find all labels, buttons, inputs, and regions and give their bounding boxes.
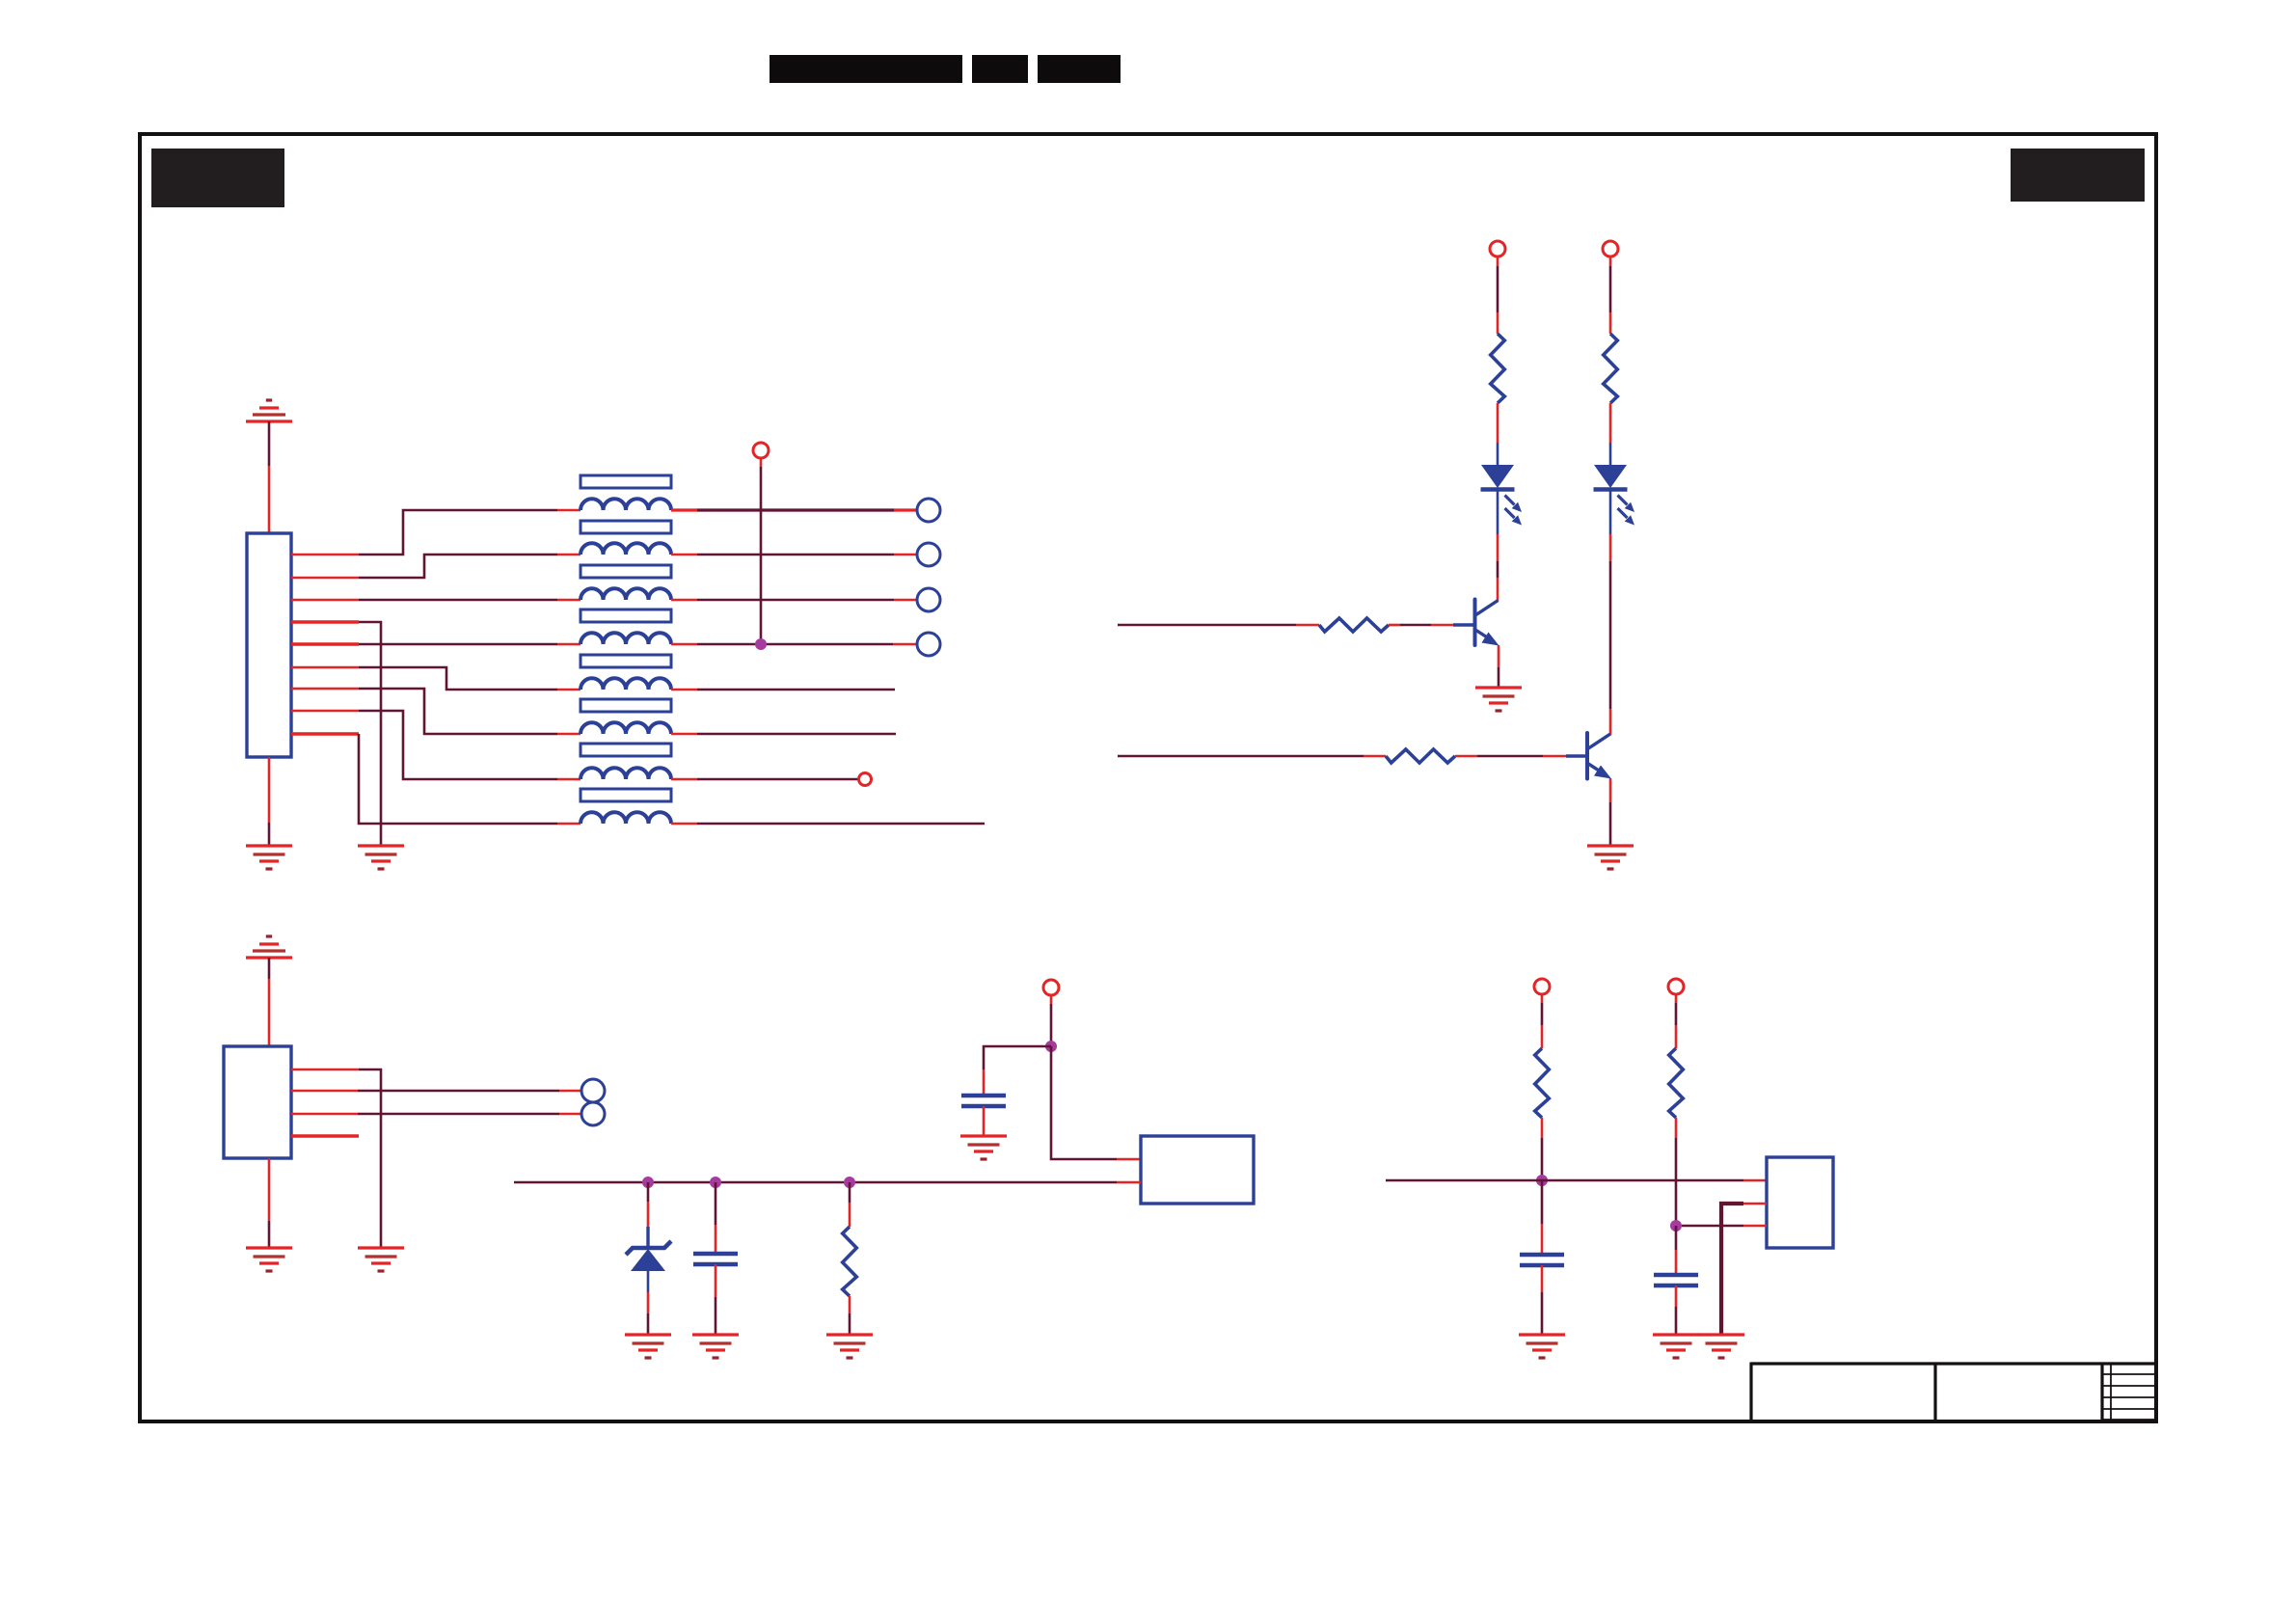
wire J1 pin 2 bbox=[291, 555, 581, 578]
wire J1 pin 7 bbox=[291, 689, 581, 734]
resistor R4 (Q2 base) bbox=[1386, 749, 1455, 763]
pad circle D+ bbox=[581, 1102, 605, 1125]
ground C2 bbox=[692, 1335, 739, 1358]
ground C3 bbox=[1519, 1335, 1565, 1358]
wire L1 output to TX+ pad bbox=[671, 508, 917, 511]
ground under J1 bbox=[246, 846, 292, 869]
wire terminal to R7 bbox=[1675, 994, 1678, 1048]
wire Q2 base network bbox=[1118, 755, 1386, 758]
drawing frame border bbox=[140, 134, 2156, 1421]
ground Q1 emitter bbox=[1475, 688, 1522, 711]
choke winding L8 bbox=[581, 812, 671, 824]
transformer core bar 7 bbox=[581, 744, 671, 756]
resistor R3 (LED2 series) bbox=[1604, 334, 1618, 403]
wire C3 to ground bbox=[1541, 1265, 1544, 1335]
power terminal LED1 bbox=[1490, 241, 1505, 257]
junction SDA node bbox=[1536, 1175, 1548, 1186]
wire terminal to R (LED1) bbox=[1497, 257, 1499, 334]
wire J2 shield to ground bbox=[268, 1158, 271, 1221]
title block revision column bbox=[2102, 1364, 2156, 1422]
choke winding L4 bbox=[581, 633, 671, 644]
wire bus to zener bbox=[647, 1182, 650, 1248]
wire C4 to ground bbox=[1675, 1286, 1678, 1335]
transformer core bar 4 bbox=[581, 609, 671, 622]
wire chassis ground to J2 shield bbox=[268, 958, 271, 979]
chassis ground (top of J2) bbox=[246, 936, 292, 958]
wire J2 pin 4 stub bbox=[291, 1134, 359, 1137]
ground R5 bbox=[826, 1335, 873, 1358]
wire SDA bus to U2 bbox=[1386, 1179, 1767, 1182]
ground U2 pin 2 bbox=[1698, 1335, 1744, 1358]
capacitor C3 bbox=[1520, 1255, 1564, 1265]
wire bus to C2 bbox=[715, 1182, 717, 1254]
resistor R7 (pull-up) bbox=[1669, 1048, 1684, 1118]
wire R5 to ground bbox=[849, 1296, 851, 1335]
chassis ground (top of RJ45) bbox=[246, 400, 292, 421]
ground zener bbox=[625, 1335, 671, 1358]
wire SCL node to C4 bbox=[1675, 1226, 1678, 1275]
wire SDA node to C3 bbox=[1541, 1180, 1544, 1255]
pad circle D- bbox=[581, 1079, 605, 1102]
wire L3 output to RX+ pad bbox=[671, 599, 917, 602]
resistor R2 (Q1 base) bbox=[1319, 618, 1389, 632]
title redaction bar 2 bbox=[972, 55, 1028, 83]
transformer core bar 5 bbox=[581, 655, 671, 667]
choke winding L3 bbox=[581, 588, 671, 600]
power terminal pull-up 2 bbox=[1668, 979, 1684, 994]
choke winding L1 bbox=[581, 499, 671, 510]
wire J1 shield to ground bbox=[268, 757, 271, 823]
ground C4 bbox=[1653, 1335, 1699, 1358]
wire C1 to ground bbox=[983, 1106, 986, 1136]
wire R4 to Q2 base bbox=[1455, 755, 1586, 758]
transistor Q2 (NPN) bbox=[1587, 733, 1611, 779]
wire LED2 cathode to Q2 collector bbox=[1609, 490, 1612, 735]
wire L5 output stub bbox=[671, 689, 895, 691]
wire R6 to SDA node bbox=[1541, 1118, 1544, 1180]
capacitor C2 bbox=[693, 1254, 738, 1264]
LED D1 bbox=[1481, 465, 1523, 526]
resistor R5 bbox=[843, 1227, 857, 1296]
capacitor C1 bbox=[961, 1096, 1006, 1106]
wire J2 pin 2 (D-) bbox=[291, 1090, 581, 1093]
wire C2 to ground bbox=[715, 1264, 717, 1335]
wire node to C1 bbox=[984, 1046, 1051, 1096]
top-right redaction block bbox=[2011, 149, 2145, 202]
wire terminal to R (LED2) bbox=[1609, 257, 1612, 334]
pad circle TX- bbox=[917, 543, 940, 566]
capacitor C4 bbox=[1654, 1275, 1698, 1286]
wire J1 pin 6 bbox=[291, 667, 581, 690]
choke winding L5 bbox=[581, 678, 671, 690]
junction SCL node bbox=[1670, 1220, 1682, 1232]
ground Q2 emitter bbox=[1587, 846, 1634, 869]
power terminal LED2 bbox=[1603, 241, 1618, 257]
LED D2 bbox=[1594, 465, 1635, 526]
title block outline bbox=[1751, 1363, 2156, 1423]
wire J2 pin 3 (D+) bbox=[291, 1113, 581, 1116]
wire node to U1 power pin bbox=[1051, 1046, 1141, 1159]
wire L4 output to RX- pad bbox=[671, 643, 917, 646]
wire R3 to LED2 bbox=[1609, 403, 1612, 465]
wire R7 to SCL node bbox=[1675, 1118, 1678, 1226]
wire L7 output to terminal bbox=[671, 778, 858, 781]
pad circle RX- bbox=[917, 633, 940, 656]
wire L6 output stub bbox=[671, 733, 896, 736]
IC U2 bbox=[1767, 1157, 1833, 1248]
ground for J1 pin 4 bbox=[358, 846, 404, 869]
wire zener to ground bbox=[647, 1270, 650, 1335]
choke winding L7 bbox=[581, 768, 671, 779]
ground C1 bbox=[960, 1136, 1007, 1159]
transformer core bar 1 bbox=[581, 475, 671, 488]
wire J1 pin 8 bbox=[291, 711, 581, 779]
transformer core bar 3 bbox=[581, 565, 671, 578]
transistor Q1 (NPN) bbox=[1475, 600, 1499, 646]
transformer core bar 2 bbox=[581, 521, 671, 533]
wire VBUS sense bus bbox=[514, 1181, 1141, 1184]
choke winding L2 bbox=[581, 543, 671, 555]
transformer core bar 6 bbox=[581, 699, 671, 712]
wire J2 pin 1 to ground bbox=[291, 1069, 381, 1248]
wire R1 to LED1 bbox=[1497, 403, 1499, 465]
title redaction bar 3 bbox=[1038, 55, 1121, 83]
choke winding L6 bbox=[581, 722, 671, 734]
wire Q1 base network bbox=[1118, 624, 1319, 627]
connector J1 (RJ45 jack) bbox=[247, 533, 291, 757]
wire R2 to Q1 base bbox=[1389, 624, 1473, 627]
wire Q2 emitter to ground bbox=[1609, 778, 1612, 846]
wire chassis ground to J1 shield bbox=[268, 421, 271, 466]
pad circle RX+ bbox=[917, 588, 940, 611]
title redaction bar 1 bbox=[770, 55, 962, 83]
junction zener node bbox=[642, 1177, 654, 1188]
power terminal pull-up 1 bbox=[1534, 979, 1550, 994]
zener diode ZD1 bbox=[626, 1241, 671, 1271]
junction resistor node bbox=[844, 1177, 855, 1188]
resistor R1 (LED1 series) bbox=[1491, 334, 1505, 403]
wire L2 output to TX- pad bbox=[671, 554, 917, 556]
wire Q1 emitter to ground bbox=[1498, 645, 1500, 688]
top-left redaction block bbox=[151, 149, 284, 207]
resistor R6 (pull-up) bbox=[1535, 1048, 1550, 1118]
junction cap node bbox=[710, 1177, 721, 1188]
ground under J2 bbox=[246, 1248, 292, 1271]
wire J1 pin 1 bbox=[291, 510, 581, 555]
wire VBUS down to node bbox=[1050, 995, 1053, 1004]
wire J1 pin 5 bbox=[291, 642, 581, 645]
ground for J2 pin 1 bbox=[358, 1248, 404, 1271]
wire center-tap supply bbox=[760, 458, 763, 467]
wire terminal to R6 bbox=[1541, 994, 1544, 1048]
wire LED1 cathode to Q1 collector bbox=[1497, 490, 1499, 601]
wire J1 pin 3 bbox=[291, 599, 581, 602]
connector J2 (USB) bbox=[224, 1046, 291, 1158]
wire J1 pin 4 to ground bbox=[291, 622, 381, 846]
wire L8 output long stub bbox=[671, 823, 985, 826]
wire bus to R5 bbox=[849, 1182, 851, 1227]
power terminal VBUS bbox=[1043, 980, 1059, 995]
power terminal above center tap bbox=[753, 443, 769, 458]
wire SCL node to U2 bbox=[1682, 1225, 1767, 1228]
pad circle TX+ bbox=[917, 499, 940, 522]
IC U1 bbox=[1141, 1136, 1254, 1204]
wire U2 pin 2 to ground bbox=[1721, 1204, 1767, 1335]
junction VBUS node bbox=[1045, 1041, 1057, 1052]
small terminal circle L7 bbox=[859, 773, 872, 786]
wire J1 pin 9 bbox=[291, 734, 581, 824]
transformer core bar 8 bbox=[581, 789, 671, 801]
junction center tap bbox=[755, 638, 767, 650]
